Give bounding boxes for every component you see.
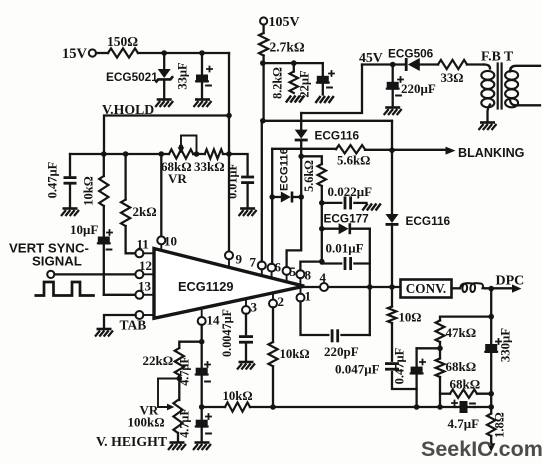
svg-text:10μF: 10μF: [70, 222, 98, 237]
junction blanking crossing: [389, 147, 395, 153]
svg-text:220μF: 220μF: [401, 81, 436, 96]
svg-text:1.8Ω: 1.8Ω: [493, 412, 507, 438]
pin 3: [242, 299, 258, 315]
pin 7: [250, 255, 266, 276]
svg-text:4.7μF: 4.7μF: [178, 408, 192, 438]
capacitor 0.0047µF: [220, 309, 253, 361]
junction diode row right: [298, 194, 304, 200]
wire 47k68k top: [417, 347, 440, 349]
wire conv to coil: [452, 287, 461, 289]
potentiometer VR 100kΩ: [128, 400, 183, 441]
wire DPC node down: [490, 289, 492, 344]
svg-text:ECG116: ECG116: [279, 148, 291, 191]
wire pin 10 up to rail: [160, 154, 162, 237]
wire pin14 down: [201, 325, 203, 368]
junction 0.022 tap: [319, 200, 325, 206]
svg-text:33kΩ: 33kΩ: [194, 159, 225, 174]
svg-text:9: 9: [236, 252, 243, 267]
svg-text:4.7μF: 4.7μF: [448, 416, 480, 431]
svg-text:ECG506: ECG506: [388, 47, 434, 61]
junction long rail left: [260, 118, 266, 124]
wire 15V rail down to pin 9: [228, 53, 230, 251]
wire 22k to VR: [178, 375, 180, 400]
pin 2: [269, 293, 284, 309]
capacitor 4.7µF lower: [178, 408, 212, 441]
wire 45V step down-left: [301, 65, 362, 114]
wire blanking: [272, 149, 445, 150]
svg-text:100kΩ: 100kΩ: [128, 415, 165, 430]
svg-text:220pF: 220pF: [324, 344, 359, 359]
label 45V: [359, 50, 383, 65]
inductor L1: [460, 283, 485, 292]
junction rail-right: [226, 151, 232, 157]
svg-text:0.47μF: 0.47μF: [393, 347, 407, 384]
label V.HOLD: [102, 102, 154, 117]
node sync input terminal: [47, 271, 54, 278]
resistor 5.6kΩ vertical: [302, 160, 326, 192]
wire 15V rail: [138, 52, 229, 54]
wire 105V rail right: [263, 120, 392, 122]
svg-text:V. HEIGHT: V. HEIGHT: [96, 434, 167, 449]
resistor 33kΩ: [194, 149, 225, 174]
wiper loop VR100k: [158, 379, 179, 411]
wire 22k branch: [179, 342, 201, 348]
wire 8.2k 22uF top: [263, 62, 323, 64]
node 15V input terminal: [62, 46, 96, 62]
svg-text:2kΩ: 2kΩ: [133, 204, 157, 219]
resistor 33Ω: [438, 60, 467, 85]
resistor 1.8Ω: [487, 412, 507, 438]
svg-text:SIGNAL: SIGNAL: [32, 254, 82, 269]
resistor 22kΩ: [143, 348, 184, 375]
junction rail-10k: [101, 151, 107, 157]
wire right rail down: [391, 121, 393, 287]
pin 13: [135, 279, 154, 299]
svg-text:4.7μF: 4.7μF: [178, 356, 192, 386]
converter CONV box: [401, 280, 452, 298]
junction ECG177 tap: [319, 226, 325, 232]
pin 14: [198, 308, 220, 327]
capacitor 330µF: [484, 328, 512, 414]
junction 15V-33uF: [199, 50, 205, 56]
svg-text:ECG1129: ECG1129: [178, 279, 234, 294]
wire 47k top: [440, 317, 491, 321]
wire 5.6k vertical down: [321, 186, 323, 264]
svg-text:7: 7: [250, 255, 257, 270]
capacitor 33µF: [176, 53, 213, 99]
wire 47k to 68k: [439, 342, 441, 359]
capacitor 0.47µF right: [393, 347, 426, 406]
wire 10ohm down: [391, 323, 393, 361]
op-amp U1 ECG1129 triangle: [154, 249, 304, 319]
wire 2k to pin 11: [126, 226, 136, 253]
svg-text:2: 2: [278, 294, 285, 309]
wire 5.6k vertical top: [301, 156, 322, 164]
pin 9: [225, 251, 243, 267]
junction pin14 bottom: [199, 404, 205, 410]
svg-text:13: 13: [138, 279, 152, 294]
svg-text:33μF: 33μF: [176, 62, 190, 90]
svg-text:5: 5: [290, 264, 297, 279]
wire coil to DPC: [485, 287, 513, 289]
capacitor 0.01µF middle: [322, 241, 370, 271]
svg-text:22kΩ: 22kΩ: [143, 353, 174, 368]
wire 33ohm to FBT: [467, 63, 484, 65]
pin 1: [297, 288, 312, 304]
capacitor 220pF: [301, 301, 370, 359]
arrow BLANKING: [446, 146, 525, 160]
diode ECG116 top: [295, 129, 360, 143]
svg-text:5.6kΩ: 5.6kΩ: [302, 160, 316, 192]
wire pin6 up: [271, 149, 273, 264]
ground of 0.47uF: [61, 209, 79, 217]
ground of TAB: [95, 329, 113, 337]
pin 4: [304, 270, 400, 291]
junction 220uF top: [390, 62, 396, 68]
ground of 8.2k: [286, 96, 304, 103]
potentiometer VR 68kΩ: [161, 136, 199, 187]
svg-text:DPC: DPC: [496, 274, 525, 289]
svg-text:F.B T: F.B T: [481, 49, 513, 64]
diode ECG116 middle: [272, 148, 301, 203]
ground of ECG5021: [155, 100, 173, 108]
wire 10uF to pin 13: [104, 294, 136, 296]
svg-text:14: 14: [207, 313, 221, 328]
resistor 68kΩ horizontal: [440, 377, 491, 398]
wire mid column: [300, 113, 302, 129]
capacitor 10µF: [70, 206, 113, 295]
svg-text:150Ω: 150Ω: [107, 34, 138, 49]
svg-text:105V: 105V: [269, 15, 300, 30]
junction rail-2k: [123, 151, 129, 157]
wire bias rail: [70, 153, 229, 155]
ground of 220uF: [384, 108, 402, 116]
svg-text:4: 4: [320, 270, 327, 285]
svg-text:0.47μF: 0.47μF: [46, 161, 60, 198]
svg-text:10kΩ: 10kΩ: [223, 389, 253, 403]
svg-text:8.2kΩ: 8.2kΩ: [271, 67, 285, 99]
svg-text:2.7kΩ: 2.7kΩ: [270, 40, 305, 55]
capacitor 4.7µF upper: [178, 356, 211, 419]
resistor 5.6kΩ blanking: [336, 145, 370, 167]
diode ECG506: [388, 47, 434, 72]
svg-text:22μF: 22μF: [298, 70, 312, 98]
resistor 47kΩ: [436, 321, 477, 343]
capacitor 0.022µF: [322, 184, 372, 209]
ground of 22uF: [315, 96, 333, 103]
junction 68kh right: [488, 391, 494, 397]
svg-text:10Ω: 10Ω: [399, 311, 422, 325]
svg-text:VR: VR: [168, 171, 187, 186]
capacitor 4.7µF horizontal: [448, 400, 480, 431]
wire ECG177 down: [369, 229, 371, 335]
svg-text:10kΩ: 10kΩ: [82, 176, 96, 205]
junction DPC node: [488, 286, 494, 292]
svg-text:330μF: 330μF: [499, 328, 513, 362]
label VERT SYNC-SIGNAL: [9, 241, 89, 269]
wire 15V terminal to resistor: [96, 52, 108, 54]
junction right rail output: [389, 284, 395, 290]
junction bottom 68k: [437, 404, 443, 410]
svg-text:15V: 15V: [62, 46, 88, 62]
junction V.HOLD-rail: [226, 113, 232, 119]
svg-text:ECG177: ECG177: [324, 212, 370, 226]
svg-text:3: 3: [251, 300, 258, 315]
wire pin 8 jog: [300, 262, 321, 271]
pin 11: [135, 237, 154, 258]
capacitor 0.47µF: [46, 154, 77, 208]
junction bottom 047: [414, 404, 420, 410]
capacitor 22µF: [298, 63, 335, 98]
diode ECG116 right: [386, 214, 451, 228]
svg-text:33Ω: 33Ω: [441, 71, 464, 85]
arrow DPC: [496, 274, 525, 293]
ground of 0.01uF left: [239, 209, 257, 217]
ground of FBT: [479, 123, 497, 131]
svg-text:0.01μF: 0.01μF: [226, 163, 240, 199]
wire sync to pin 12: [55, 273, 136, 275]
svg-text:47kΩ: 47kΩ: [446, 325, 477, 340]
junction bottom right: [488, 404, 494, 410]
junction diode row left: [269, 194, 275, 200]
resistor 8.2kΩ: [271, 63, 299, 99]
svg-text:68kΩ: 68kΩ: [446, 359, 477, 374]
wire 68k down: [439, 377, 441, 407]
transformer F.B.T: [481, 49, 540, 122]
svg-text:11: 11: [137, 237, 149, 252]
resistor 10kΩ bottom: [202, 389, 253, 412]
svg-text:0.022μF: 0.022μF: [328, 184, 373, 199]
zener diode ECG5021: [106, 53, 172, 99]
pin 12: [135, 258, 154, 278]
junction VR top: [177, 376, 183, 382]
svg-text:12: 12: [139, 258, 152, 273]
junction pin4 node: [367, 284, 373, 290]
capacitor 0.01µF left: [226, 154, 255, 208]
svg-text:5.6kΩ: 5.6kΩ: [337, 154, 370, 168]
ground of 0.022uF: [362, 204, 380, 211]
wire bottom long: [250, 406, 491, 408]
capacitor 220µF: [386, 65, 436, 107]
resistor 10kΩ pin2: [268, 307, 309, 407]
svg-text:ECG116: ECG116: [315, 129, 360, 143]
resistor 10kΩ left: [82, 154, 109, 206]
svg-text:0.0047μF: 0.0047μF: [220, 309, 234, 357]
capacitor 0.047µF: [335, 362, 417, 390]
svg-text:6: 6: [275, 260, 282, 275]
svg-text:ECG116: ECG116: [406, 214, 451, 228]
pin 6: [268, 260, 282, 279]
svg-text:TAB: TAB: [120, 318, 147, 333]
svg-text:45V: 45V: [359, 50, 383, 65]
svg-text:CONV.: CONV.: [406, 281, 446, 296]
ground of VR100k: [168, 443, 186, 451]
ground of 4.7uF: [193, 443, 211, 451]
junction bottom 10k vert: [270, 404, 276, 410]
pin 10: [157, 234, 177, 251]
junction pin8 node: [319, 259, 325, 265]
svg-text:1: 1: [305, 289, 312, 304]
resistor 2.7kΩ: [259, 25, 305, 56]
svg-text:BLANKING: BLANKING: [458, 146, 525, 160]
resistor 150Ω: [107, 34, 138, 58]
wire 45V rail: [362, 63, 406, 65]
node 105V terminal: [260, 15, 300, 30]
pin 5: [283, 264, 297, 282]
junction 8.2k top: [291, 60, 297, 66]
wire TAB to ground: [104, 315, 136, 328]
svg-text:8: 8: [305, 268, 312, 283]
svg-text:0.047μF: 0.047μF: [335, 362, 380, 377]
resistor 2kΩ: [121, 154, 157, 226]
wire 105V node down: [262, 56, 264, 121]
ground of 33uF: [194, 100, 212, 108]
wire pin 7 up: [261, 121, 263, 262]
svg-text:SeekIC.com: SeekIC.com: [421, 437, 542, 461]
wire V.HOLD: [104, 116, 229, 155]
junction 22k tap: [199, 339, 205, 345]
svg-text:10kΩ: 10kΩ: [280, 347, 310, 361]
ground of 0.0047uF: [237, 362, 255, 370]
wire mid column lower: [287, 142, 302, 267]
pin 8: [296, 268, 311, 286]
svg-text:10: 10: [164, 234, 177, 249]
sync waveform symbol: [36, 282, 94, 296]
resistor 68kΩ vertical: [436, 359, 477, 378]
junction 15V-zener: [161, 50, 167, 56]
watermark SeekIC.com: [421, 437, 542, 461]
resistor 10Ω: [388, 287, 422, 325]
junction rail-pin10: [159, 151, 165, 157]
diode ECG177: [322, 212, 370, 235]
label V. HEIGHT: [96, 434, 167, 449]
svg-text:0.01μF: 0.01μF: [326, 241, 364, 256]
wire diode to 33ohm: [420, 63, 438, 65]
svg-text:68kΩ: 68kΩ: [450, 377, 481, 392]
junction 47k tap: [488, 314, 494, 320]
junction 105V node: [260, 60, 266, 66]
svg-text:ECG5021: ECG5021: [106, 70, 158, 84]
junction 47k 68k: [437, 346, 443, 352]
junction mid-5k6: [298, 154, 304, 160]
pin TAB: [120, 311, 155, 333]
arrow yoke return: [487, 436, 495, 452]
